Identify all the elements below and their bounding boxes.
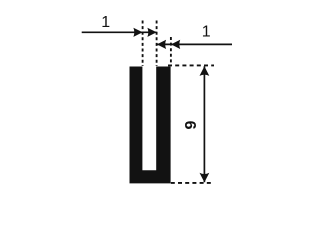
right dimension arrowhead 1 [157,40,166,49]
right dimension leader line [157,43,232,45]
dashed line at top of profile (9 dim) [168,64,214,66]
svg-text:9: 9 [183,120,200,129]
left dimension leader line [82,31,157,33]
extension line at inner edge of left wall [142,21,144,67]
extension line at inner edge of right wall [156,21,158,67]
left dimension arrowhead 1 [133,28,142,37]
U-channel profile body [130,67,171,184]
vertical dimension arrowhead up [200,66,210,76]
right dimension arrowhead 2 [171,40,180,49]
dashed line at bottom of profile (9 dim) [171,182,212,184]
svg-text:1: 1 [202,23,211,40]
svg-text:1: 1 [101,14,110,31]
extension line at outer edge of right wall [170,37,172,66]
left dimension arrowhead 2 [147,28,156,37]
vertical dimension line (depth 9) [203,66,205,182]
vertical dimension arrowhead down [200,173,210,183]
